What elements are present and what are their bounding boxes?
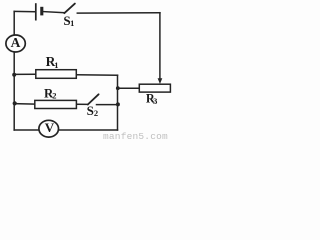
node junction dot bus-S2: [116, 102, 120, 106]
svg-text:A: A: [11, 35, 21, 50]
battery short thick plate: [40, 7, 43, 16]
rheostat R3 wiper arrowhead: [158, 78, 163, 84]
wire R1 row right to bus corner: [76, 74, 117, 76]
svg-text:1: 1: [54, 60, 58, 70]
wire top-left horizontal: [14, 10, 35, 12]
ammeter A circle: [6, 35, 25, 52]
svg-text:2: 2: [94, 108, 98, 118]
wire battery to S1: [43, 12, 64, 13]
rheostat R3 box: [139, 84, 170, 92]
node junction dot R2 left: [13, 101, 17, 105]
svg-text:V: V: [45, 120, 55, 135]
wire S1 to top-right corner: [77, 12, 160, 14]
wire bottom: [14, 129, 117, 131]
wire left vertical: [13, 11, 15, 130]
resistor R2 box: [35, 100, 77, 108]
svg-text:1: 1: [70, 18, 74, 28]
node junction dot R1 left: [12, 73, 16, 77]
node junction dot bus-R3: [116, 86, 120, 90]
svg-text:manfen5.com: manfen5.com: [103, 131, 168, 141]
wire R3 to bus: [118, 87, 140, 89]
wire S2 contact to bus: [97, 104, 118, 106]
wire right vertical down to rheostat wiper: [159, 13, 161, 79]
wire R1 row left: [14, 73, 36, 75]
battery long plate: [35, 3, 37, 20]
wire R2 row left: [14, 103, 35, 106]
switch S1 lever: [64, 4, 75, 14]
voltmeter V circle: [39, 120, 59, 137]
wire bus vertical: [117, 75, 119, 130]
svg-text:3: 3: [153, 96, 157, 106]
svg-text:2: 2: [52, 91, 56, 101]
switch S2 lever: [88, 94, 99, 104]
svg-text:S: S: [87, 103, 94, 118]
resistor R1 box: [36, 70, 77, 79]
wire R2 to S2 hinge: [76, 103, 87, 105]
